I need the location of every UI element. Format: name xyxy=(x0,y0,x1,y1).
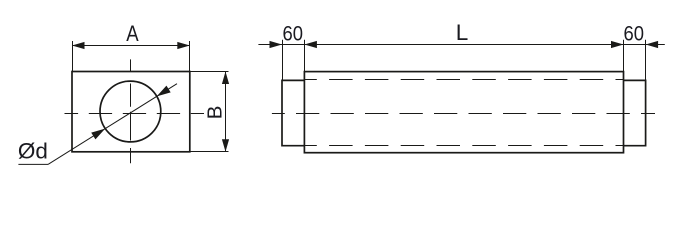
dimension line 60-L-60 xyxy=(258,44,664,46)
dimension A arrow right xyxy=(177,42,190,49)
extension line body left xyxy=(304,40,306,72)
front view body outline xyxy=(72,72,190,152)
extension line cap outer right xyxy=(645,40,647,81)
dimension B extension line bottom xyxy=(190,151,229,153)
dimension A extension line right xyxy=(189,41,191,72)
svg-text:L: L xyxy=(456,20,469,45)
dimension A arrow left xyxy=(72,42,85,49)
svg-text:A: A xyxy=(126,21,138,46)
diameter arrow upper-right xyxy=(155,86,171,100)
dimension B extension line top xyxy=(190,71,229,73)
svg-text:B: B xyxy=(203,106,226,120)
right connector cap xyxy=(624,80,646,145)
hidden line top (inner duct) xyxy=(304,79,623,81)
arrow L right (pointing right) xyxy=(611,41,624,48)
arrow at right cap (outside, pointing left) xyxy=(646,41,659,48)
arrow at left cap (outside, pointing right) xyxy=(270,41,283,48)
horizontal centerline xyxy=(65,113,205,115)
svg-text:60: 60 xyxy=(624,22,645,45)
side view centerline xyxy=(272,113,655,115)
extension line body right xyxy=(623,40,625,72)
extension line cap outer left xyxy=(282,40,284,81)
hidden line bottom (inner duct) xyxy=(304,145,623,147)
side view main body outline xyxy=(304,72,623,153)
left connector cap xyxy=(282,80,304,145)
vertical centerline xyxy=(130,59,132,163)
dimension B arrow top xyxy=(222,72,229,85)
circle (duct bore Ød) xyxy=(100,81,161,142)
dimension A extension line left xyxy=(72,41,74,72)
diameter leader line Ød xyxy=(18,84,177,165)
dimension A line xyxy=(72,45,190,47)
dimension B arrow bottom xyxy=(222,139,229,152)
dimension B line xyxy=(225,72,227,152)
svg-text:Ød: Ød xyxy=(18,138,48,163)
diameter arrow lower-left xyxy=(91,125,107,139)
svg-text:60: 60 xyxy=(283,22,304,45)
arrow L left (pointing left) xyxy=(304,41,317,48)
